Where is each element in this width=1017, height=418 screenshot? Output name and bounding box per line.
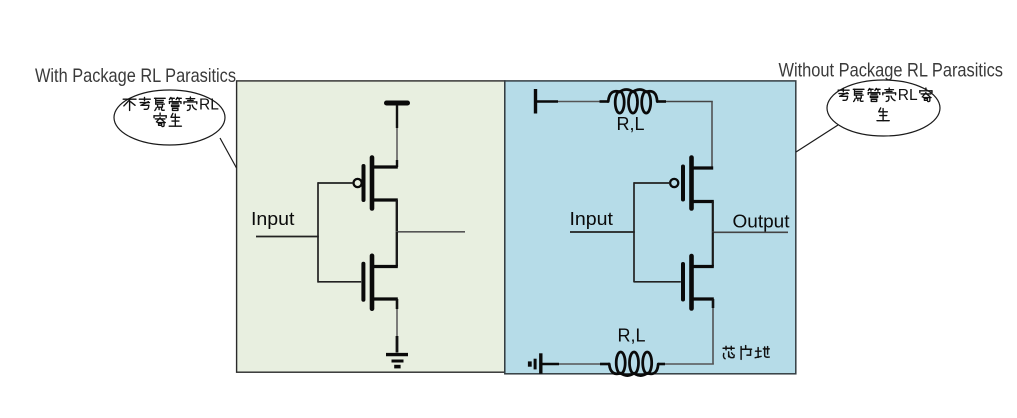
PMOS M3 gate lead — [634, 182, 670, 184]
svg-text:Output: Output — [733, 212, 790, 232]
inductor R,L top lead right — [657, 100, 666, 103]
chip ground label 芯片地 — [723, 346, 734, 358]
wire PMOS gate lead — [318, 182, 353, 184]
VDD supply bar — [387, 101, 408, 106]
PMOS M3 source stub — [693, 166, 714, 169]
PMOS M1 drain stub — [373, 198, 398, 201]
NMOS M4 gate bar — [681, 264, 685, 300]
board ground small bar — [528, 361, 532, 366]
wire inductor to ground terminal (thin) — [558, 363, 600, 365]
wire PMOS drain to output node right — [712, 202, 714, 233]
wire right rail down to PMOS — [711, 102, 713, 169]
PMOS M1 gate bubble — [354, 179, 362, 187]
NMOS M2 channel bar — [370, 256, 375, 309]
NMOS M4 drain stub — [693, 265, 714, 268]
svg-text:Without Package RL Parasitics: Without Package RL Parasitics — [779, 60, 1004, 82]
NMOS M2 gate bar — [361, 264, 365, 300]
wire output node to NMOS drain — [396, 232, 398, 267]
wire to inductor (thin part) — [558, 101, 601, 103]
wire NMOS source to ground — [396, 299, 399, 353]
NMOS M4 source stub — [693, 297, 714, 300]
left bubble text line1: 不考虑管壳RL — [123, 99, 136, 110]
right callout tail — [796, 125, 838, 152]
right panel background — [505, 81, 796, 374]
wire to ground terminal (thick) — [542, 363, 559, 366]
left callout tail — [220, 138, 237, 168]
PMOS M1 channel bar — [370, 158, 375, 209]
PMOS M3 gate bar — [681, 167, 685, 200]
board ground medium bar — [534, 359, 537, 370]
output wire left — [396, 231, 465, 233]
supply terminal bar top-left — [534, 89, 537, 114]
NMOS M2 drain stub — [373, 265, 398, 268]
wire output node to NMOS drain right — [712, 232, 714, 266]
NMOS M4 channel bar — [689, 256, 694, 309]
NMOS M2 source stub — [373, 297, 398, 300]
output wire right — [712, 231, 788, 233]
svg-text:R,L: R,L — [618, 326, 646, 346]
right callout bubble — [827, 80, 940, 136]
right bubble text line2: 生 — [877, 108, 889, 121]
right bubble text line1: 考虑管壳RL寄 — [838, 88, 849, 100]
inductor R,L bottom lead left — [600, 363, 610, 366]
input wire left — [256, 236, 319, 238]
wire PMOS drain to output node — [396, 200, 398, 232]
inductor R,L bottom lead right — [659, 363, 665, 366]
inductor R,L top coil — [615, 92, 624, 114]
gate bus vertical wire — [317, 182, 319, 282]
left bubble text line2: 寄生 — [154, 113, 166, 126]
svg-text:RL: RL — [898, 87, 918, 104]
svg-text:With Package RL Parasitics: With Package RL Parasitics — [35, 65, 236, 87]
input wire right — [570, 231, 635, 233]
svg-text:RL: RL — [199, 97, 219, 114]
wire NMOS source down to chip ground rail — [712, 299, 715, 364]
svg-text:Input: Input — [251, 209, 295, 229]
inductor R,L bottom coil — [616, 352, 625, 374]
chip ground rail wire right segment — [658, 363, 714, 365]
left panel background — [237, 81, 505, 372]
board ground symbol tall bar — [539, 353, 542, 373]
inductor R,L top lead left — [600, 100, 609, 103]
PMOS M3 gate bubble — [670, 179, 678, 187]
NMOS M4 gate lead — [634, 281, 681, 283]
PMOS M1 source stub — [373, 165, 398, 168]
wire inductor to right rail — [666, 101, 713, 103]
ground symbol — [386, 355, 408, 367]
gate bus vertical right — [633, 182, 635, 282]
PMOS M3 channel bar — [689, 158, 694, 209]
PMOS M1 gate bar — [362, 166, 366, 200]
NMOS M2 gate lead — [318, 281, 361, 283]
svg-text:Input: Input — [570, 209, 614, 229]
svg-text:R,L: R,L — [617, 114, 645, 134]
left callout bubble — [114, 90, 225, 145]
wire terminal to inductor (thick part) — [536, 100, 558, 103]
wire VDD to PMOS source — [396, 105, 398, 167]
PMOS M3 drain stub — [693, 200, 714, 203]
